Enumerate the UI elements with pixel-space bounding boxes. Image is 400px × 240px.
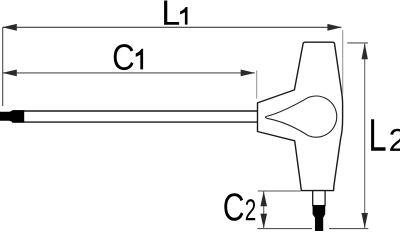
shaft (horizontal arm of hex key) [12, 111, 258, 122]
dimension C1 line [3, 72, 255, 74]
L2 bottom tick right segment [329, 228, 368, 230]
L2 top tick [347, 42, 368, 44]
dimension L1 line [3, 26, 341, 28]
extension line right of C1 (handle left face) [256, 70, 258, 98]
dimension C2 line [263, 191, 265, 228]
thumb grip teardrop cutline on handle [265, 96, 336, 137]
label C2 [224, 193, 243, 221]
C2 up arrowhead [260, 191, 267, 206]
black hex tip (left end of shaft) [0, 110, 24, 123]
L2 down arrowhead [362, 213, 368, 228]
handle body [258, 42, 343, 190]
C2 bottom tick left segment [257, 228, 312, 230]
extension line left (for L1 and C1) [2, 27, 4, 106]
C2 top tick [258, 190, 301, 192]
label L2 [371, 119, 385, 151]
L2 up arrowhead [362, 43, 368, 59]
L1 left arrowhead [2, 24, 17, 31]
label C1 [114, 44, 134, 70]
collar below handle [313, 191, 325, 206]
extension line right of L1 (handle right edge) [342, 30, 344, 94]
label L1 [164, 0, 179, 24]
C1 left arrowhead [2, 70, 17, 77]
C1 right arrowhead [241, 70, 255, 77]
dimension L2 line [364, 43, 366, 229]
L1 right arrowhead [327, 24, 341, 31]
black hex tip (bottom end) [313, 205, 326, 231]
C2 down arrowhead [260, 214, 267, 229]
